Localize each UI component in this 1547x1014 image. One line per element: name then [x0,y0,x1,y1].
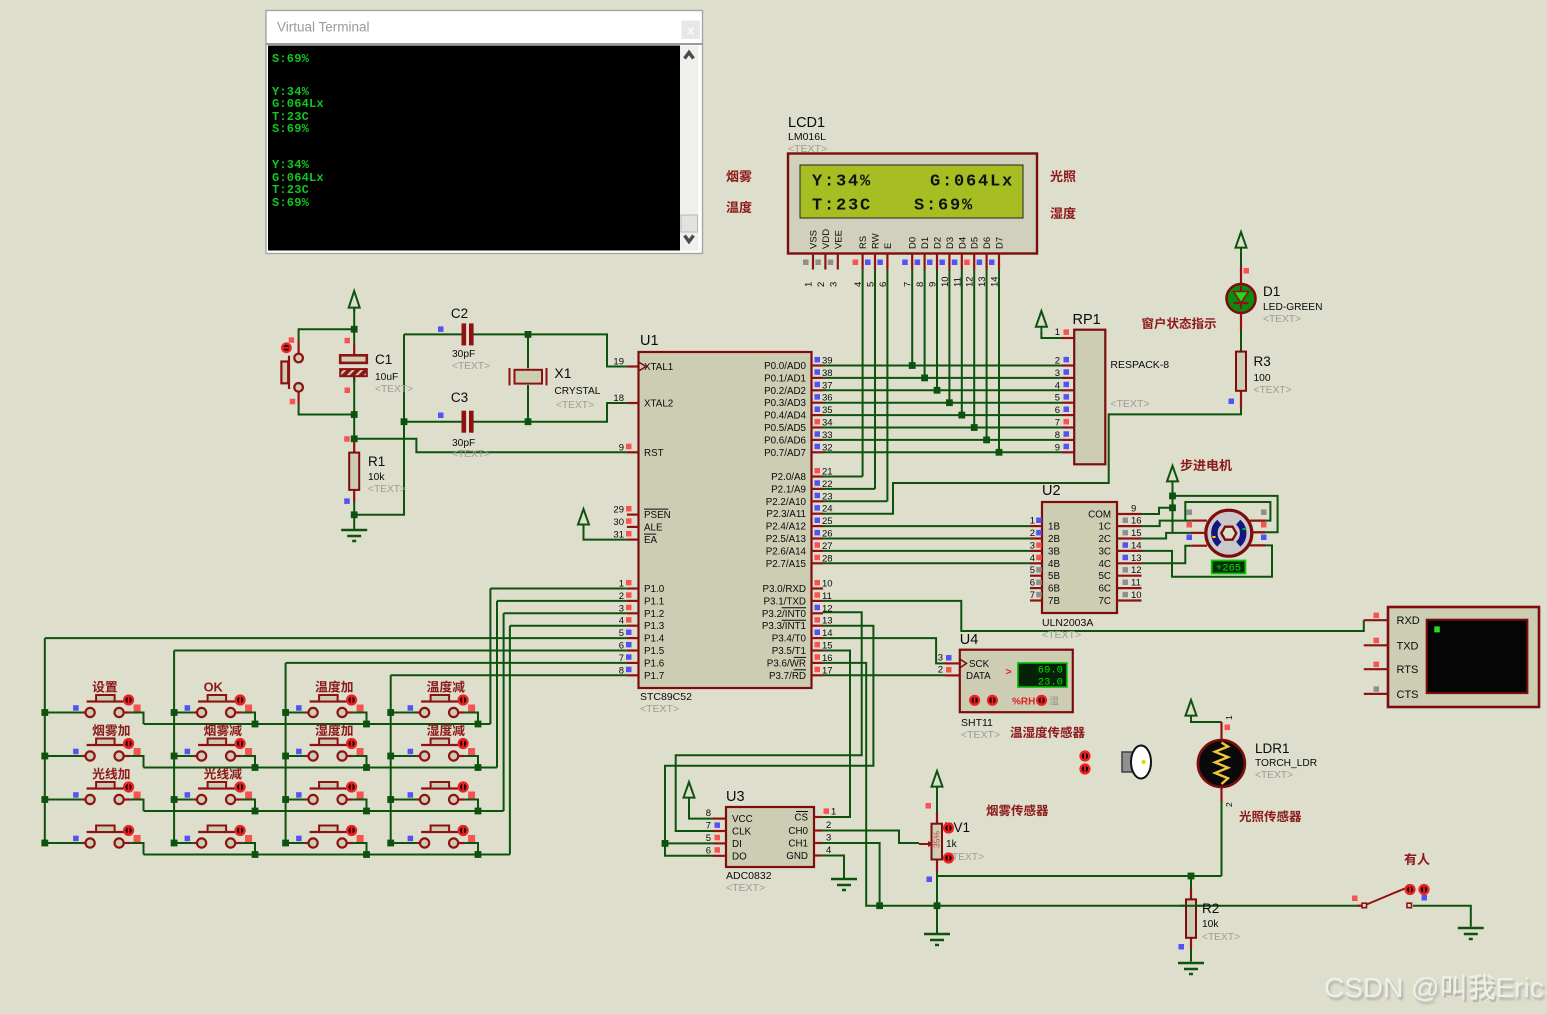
svg-text:D3: D3 [945,237,956,249]
svg-text:VCC: VCC [732,814,753,825]
svg-text:P2.6/A14: P2.6/A14 [766,546,807,557]
svg-text:Y:34%: Y:34% [812,173,872,192]
svg-text:P2.5/A13: P2.5/A13 [766,534,807,545]
svg-text:CTS: CTS [1397,689,1419,701]
svg-text:2: 2 [619,591,624,602]
svg-text:DI: DI [732,839,742,850]
svg-text:P1.0: P1.0 [644,584,665,595]
svg-text:S:69%: S:69% [272,122,310,136]
svg-text:6: 6 [878,282,889,287]
svg-text:P2.2/A10: P2.2/A10 [766,497,807,508]
svg-text:P0.2/AD2: P0.2/AD2 [764,386,806,397]
svg-text:D7: D7 [995,237,1006,249]
svg-text:30pF: 30pF [452,438,475,449]
svg-text:8: 8 [706,808,711,819]
svg-text:P0.3/AD3: P0.3/AD3 [764,398,806,409]
svg-text:DATA: DATA [966,671,991,682]
svg-text:S:69%: S:69% [272,196,310,210]
svg-text:<TEXT>: <TEXT> [1254,385,1292,396]
svg-text:RXD: RXD [1397,615,1420,627]
svg-text:2: 2 [1030,528,1035,539]
svg-text:TORCH_LDR: TORCH_LDR [1255,758,1317,769]
svg-text:S:69%: S:69% [914,197,974,216]
svg-text:34: 34 [822,418,833,429]
svg-text:U4: U4 [960,632,979,648]
svg-text:P3.5/T1: P3.5/T1 [772,646,806,657]
svg-text:31: 31 [613,530,624,541]
svg-text:LDR1: LDR1 [1255,741,1290,756]
svg-text:RP1: RP1 [1073,312,1101,328]
svg-text:LM016L: LM016L [788,131,826,143]
svg-text:STC89C52: STC89C52 [640,691,692,703]
svg-text:P2.7/A15: P2.7/A15 [766,559,807,570]
svg-text:P0.1/AD1: P0.1/AD1 [764,373,806,384]
svg-text:2: 2 [1224,802,1234,807]
svg-text:<TEXT>: <TEXT> [726,882,765,894]
svg-text:32: 32 [822,442,833,453]
svg-text:<TEXT>: <TEXT> [640,703,679,715]
svg-text:10k: 10k [1202,919,1219,930]
svg-text:2: 2 [816,282,827,287]
svg-text:15: 15 [1131,528,1142,539]
svg-text:6C: 6C [1098,584,1111,595]
svg-text:1: 1 [831,807,836,818]
svg-text:P1.3: P1.3 [644,621,665,632]
svg-text:LED-GREEN: LED-GREEN [1263,302,1322,313]
svg-text:P3.3/INT1: P3.3/INT1 [762,621,806,632]
svg-text:COM: COM [1088,510,1111,521]
svg-text:1: 1 [1055,327,1060,338]
svg-text:SHT11: SHT11 [961,717,993,729]
svg-text:X1: X1 [554,365,571,381]
svg-text:5B: 5B [1048,571,1060,582]
svg-text:<TEXT>: <TEXT> [1110,398,1149,410]
svg-text:100: 100 [1254,373,1271,384]
svg-text:27: 27 [822,541,833,552]
svg-text:6: 6 [619,641,624,652]
svg-text:7: 7 [706,821,711,832]
svg-text:RS: RS [858,236,869,249]
svg-text:2: 2 [938,664,943,675]
svg-text:6: 6 [1055,405,1060,416]
svg-text:EA: EA [644,535,658,546]
svg-text:CRYSTAL: CRYSTAL [554,386,600,397]
svg-text:P1.1: P1.1 [644,596,664,607]
svg-text:P3.2/INT0: P3.2/INT0 [762,609,807,620]
svg-text:4: 4 [619,616,624,627]
svg-text:13: 13 [822,616,833,627]
svg-text:Eric: Eric [1496,972,1544,1003]
svg-text:GND: GND [786,851,808,862]
svg-text:P1.7: P1.7 [644,671,664,682]
svg-text:9: 9 [1055,442,1060,453]
svg-text:1: 1 [1224,715,1234,720]
svg-text:5: 5 [1030,565,1035,576]
svg-text:CH1: CH1 [788,839,808,850]
svg-text:P2.1/A9: P2.1/A9 [771,484,806,495]
svg-text:P1.6: P1.6 [644,658,665,669]
svg-text:69.0: 69.0 [1038,665,1063,677]
svg-text:P3.0/RXD: P3.0/RXD [762,584,806,595]
svg-text:3: 3 [938,652,943,663]
svg-text:7: 7 [1055,418,1060,429]
svg-text:3C: 3C [1098,546,1111,557]
svg-text:R2: R2 [1202,901,1219,916]
svg-text:RESPACK-8: RESPACK-8 [1110,359,1169,371]
svg-text:5C: 5C [1098,571,1111,582]
svg-text:3: 3 [828,282,839,287]
svg-text:11: 11 [952,277,963,287]
svg-text:3: 3 [1030,540,1035,551]
svg-text:15: 15 [822,641,833,652]
svg-text:35: 35 [822,405,833,416]
svg-text:P2.3/A11: P2.3/A11 [766,509,806,520]
svg-text:CLK: CLK [732,827,752,838]
svg-text:16: 16 [1131,516,1142,527]
svg-text:12: 12 [965,276,976,287]
svg-text:35%: 35% [932,831,942,848]
svg-text:P0.5/AD5: P0.5/AD5 [764,423,806,434]
svg-text:2: 2 [1055,356,1060,367]
svg-text:ADC0832: ADC0832 [726,870,772,882]
svg-text:14: 14 [990,276,1001,287]
svg-text:9: 9 [1131,504,1136,515]
svg-text:2C: 2C [1098,534,1111,545]
svg-text:8: 8 [619,665,624,676]
svg-text:VDD: VDD [821,229,832,249]
svg-text:P0.0/AD0: P0.0/AD0 [764,361,806,372]
svg-text:39: 39 [822,356,833,367]
svg-text:P3.4/T0: P3.4/T0 [772,634,807,645]
svg-text:5: 5 [866,282,877,287]
svg-text:23.0: 23.0 [1038,677,1063,689]
svg-text:DO: DO [732,851,747,862]
svg-text:P0.4/AD4: P0.4/AD4 [764,411,806,422]
svg-text:C2: C2 [451,306,468,321]
svg-text:29: 29 [613,505,624,516]
svg-text:4: 4 [826,845,831,856]
svg-text:ALE: ALE [644,522,663,533]
svg-text:D5: D5 [970,237,981,249]
svg-text:4B: 4B [1048,559,1060,570]
svg-text:10: 10 [1131,590,1142,601]
svg-text:21: 21 [822,467,833,478]
svg-text:Y:34%: Y:34% [272,158,310,172]
svg-text:7C: 7C [1098,596,1111,607]
svg-text:P0.7/AD7: P0.7/AD7 [764,448,806,459]
svg-text:RTS: RTS [1397,664,1419,676]
svg-text:G:064Lx: G:064Lx [272,97,324,111]
svg-text:19: 19 [613,357,624,368]
svg-text:4: 4 [853,282,864,287]
svg-text:LCD1: LCD1 [788,115,825,131]
svg-text:10: 10 [822,579,833,590]
svg-text:T:23C: T:23C [812,197,872,216]
svg-text:U1: U1 [640,333,659,349]
svg-text:E: E [883,243,894,249]
svg-text:10k: 10k [368,472,385,483]
svg-text:37: 37 [822,380,833,391]
svg-text:<TEXT>: <TEXT> [368,484,406,495]
svg-text:3: 3 [826,833,831,844]
svg-text:8: 8 [915,282,926,287]
svg-text:D1: D1 [1263,284,1280,299]
svg-text:3: 3 [1055,368,1060,379]
svg-text:12: 12 [1131,565,1142,576]
svg-text:G:064Lx: G:064Lx [930,173,1014,192]
svg-text:36: 36 [822,393,833,404]
svg-text:D6: D6 [982,237,993,249]
svg-text:1: 1 [619,579,624,590]
svg-text:6: 6 [1030,578,1035,589]
svg-text:<TEXT>: <TEXT> [375,384,413,395]
svg-text:26: 26 [822,529,833,540]
svg-text:2: 2 [826,820,831,831]
svg-text:P3.7/RD: P3.7/RD [769,671,806,682]
svg-text:30pF: 30pF [452,349,475,360]
svg-text:VEE: VEE [833,230,844,249]
svg-text:<TEXT>: <TEXT> [1263,314,1301,325]
svg-text:C1: C1 [375,352,392,367]
svg-text:1k: 1k [946,839,958,850]
svg-text:XTAL2: XTAL2 [644,399,673,410]
svg-text:9: 9 [928,282,939,287]
svg-text:33: 33 [822,430,833,441]
svg-text:<TEXT>: <TEXT> [1042,629,1081,641]
svg-text:14: 14 [1131,540,1142,551]
svg-text:P1.4: P1.4 [644,634,665,645]
svg-text:5: 5 [1055,393,1060,404]
svg-text:<TEXT>: <TEXT> [961,729,1000,741]
svg-text:R1: R1 [368,454,385,469]
svg-text:10: 10 [940,276,951,287]
svg-text:7: 7 [1030,590,1035,601]
svg-text:14: 14 [822,628,833,639]
svg-text:Virtual Terminal: Virtual Terminal [277,20,370,35]
svg-text:4C: 4C [1098,559,1111,570]
svg-text:CSDN @: CSDN @ [1324,972,1440,1003]
svg-text:1: 1 [1030,516,1035,527]
svg-text:12: 12 [822,603,833,614]
svg-text:ULN2003A: ULN2003A [1042,617,1093,629]
svg-text:OK: OK [204,680,224,695]
svg-text:18: 18 [613,393,624,404]
svg-text:VSS: VSS [809,230,820,249]
svg-text:7: 7 [619,653,624,664]
svg-text:C3: C3 [451,390,468,405]
svg-text:%RH: %RH [1012,697,1035,708]
svg-text:10uF: 10uF [375,372,398,383]
svg-text:22: 22 [822,479,833,490]
svg-text:RST: RST [644,448,664,459]
svg-text:P1.5: P1.5 [644,646,665,657]
svg-text:7: 7 [903,282,914,287]
svg-text:1C: 1C [1098,522,1111,533]
svg-text:P0.6/AD6: P0.6/AD6 [764,435,806,446]
svg-text:16: 16 [822,653,833,664]
svg-text:<TEXT>: <TEXT> [1202,932,1240,943]
svg-text:P1.2: P1.2 [644,609,664,620]
svg-text:1B: 1B [1048,522,1060,533]
svg-text:25: 25 [822,516,833,527]
svg-text:>: > [1006,666,1012,678]
svg-text:P3.1/TXD: P3.1/TXD [764,596,806,607]
svg-text:2B: 2B [1048,534,1060,545]
svg-text:XTAL1: XTAL1 [644,362,673,373]
svg-text:24: 24 [822,504,833,515]
svg-text:S:69%: S:69% [272,52,310,66]
svg-text:U2: U2 [1042,483,1061,499]
svg-text:P3.6/WR: P3.6/WR [767,658,806,669]
svg-text:T:23C: T:23C [272,183,309,197]
svg-text:<TEXT>: <TEXT> [452,361,490,372]
svg-text:38: 38 [822,368,833,379]
svg-text:4: 4 [1055,380,1060,391]
svg-text:13: 13 [977,276,988,287]
svg-text:D4: D4 [957,237,968,249]
svg-text:P2.4/A12: P2.4/A12 [766,522,806,533]
svg-text:8: 8 [1055,430,1060,441]
svg-text:1: 1 [804,282,815,287]
svg-text:+265: +265 [1216,562,1241,574]
svg-text:5: 5 [706,833,711,844]
svg-text:RW: RW [871,233,882,249]
svg-text:9: 9 [619,442,624,453]
svg-text:x: x [687,23,695,38]
svg-text:17: 17 [822,665,833,676]
svg-text:3: 3 [619,603,624,614]
svg-text:<TEXT>: <TEXT> [452,449,490,460]
svg-text:D1: D1 [920,237,931,249]
svg-text:11: 11 [1131,578,1141,589]
svg-text:PSEN: PSEN [644,510,671,521]
svg-text:3B: 3B [1048,546,1060,557]
svg-text:P2.0/A8: P2.0/A8 [771,472,806,483]
svg-text:6B: 6B [1048,584,1060,595]
svg-text:4: 4 [1030,553,1035,564]
svg-text:5: 5 [619,628,624,639]
svg-text:CS: CS [794,813,808,824]
svg-text:U3: U3 [726,789,745,805]
svg-text:7B: 7B [1048,596,1060,607]
svg-text:R3: R3 [1254,354,1271,369]
svg-text:D0: D0 [908,237,919,249]
svg-text:6: 6 [706,845,711,856]
svg-text:TXD: TXD [1397,640,1419,652]
svg-text:23: 23 [822,491,833,502]
svg-text:28: 28 [822,553,833,564]
svg-text:D2: D2 [933,237,944,249]
svg-text:13: 13 [1131,553,1142,564]
svg-text:11: 11 [822,591,832,602]
svg-text:CH0: CH0 [788,826,808,837]
svg-text:<TEXT>: <TEXT> [1255,770,1293,781]
svg-text:SCK: SCK [969,659,990,670]
svg-text:30: 30 [613,517,624,528]
svg-text:<TEXT>: <TEXT> [556,400,594,411]
